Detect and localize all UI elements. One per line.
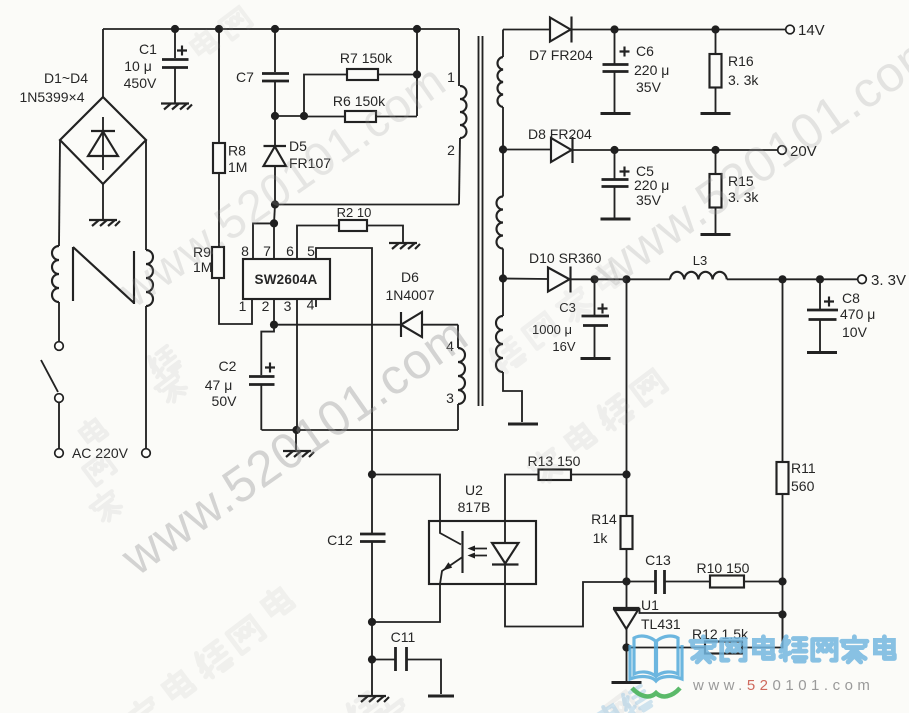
optocoupler U2 817B <box>429 521 536 584</box>
resistor R15 <box>710 150 722 233</box>
node: TL431 cathode node <box>622 577 630 585</box>
resistor R7 <box>347 69 378 80</box>
resistor R6 <box>345 111 376 122</box>
svg-text:450V: 450V <box>124 75 157 91</box>
AC terminal left <box>55 449 64 458</box>
resistor R2 <box>339 220 367 231</box>
svg-text:U1: U1 <box>641 597 659 613</box>
svg-text:1: 1 <box>239 298 247 314</box>
wire: R2 right to ground <box>367 226 403 243</box>
choke core bars <box>73 247 134 304</box>
svg-text:U2: U2 <box>465 482 483 498</box>
node: R10/R11 junction <box>778 577 786 585</box>
svg-text:1N4007: 1N4007 <box>385 287 434 303</box>
svg-text:3: 3 <box>284 298 292 314</box>
wire: LED cathode to TL431 node <box>505 582 627 627</box>
watermark pale blue hanzi bottom <box>596 684 653 713</box>
node: gnd rail at pin3 <box>292 426 300 434</box>
common-mode choke right winding <box>146 250 153 306</box>
svg-text:R14: R14 <box>591 511 617 527</box>
ground under C11 node <box>358 696 389 702</box>
wire: pin8 link <box>253 223 274 259</box>
switch lever <box>41 360 58 392</box>
wire: drain node down to pin7 <box>274 205 275 224</box>
diode D10 SR360 <box>548 267 670 293</box>
wire: pin6 riser to R2 <box>297 226 339 260</box>
svg-text:R10 150: R10 150 <box>697 560 750 576</box>
node: R6/R7 left junction <box>300 112 308 120</box>
resistor R10 <box>710 576 744 588</box>
svg-text:C13: C13 <box>645 552 671 568</box>
capacitor C8 <box>807 279 838 351</box>
svg-text:D7 FR204: D7 FR204 <box>529 47 593 63</box>
resistor R13 <box>505 470 627 522</box>
wire: primary ground rail <box>262 429 459 431</box>
svg-text:1k: 1k <box>593 530 609 546</box>
node: 14V at C6 <box>610 25 618 33</box>
wire: winding3 to gnd rail <box>457 404 459 430</box>
node: 20V at C5 <box>610 146 618 154</box>
node: 20V at R15 <box>711 146 719 154</box>
svg-text:L3: L3 <box>693 253 707 268</box>
svg-text:SW2604A: SW2604A <box>255 272 318 287</box>
transformer core bars <box>479 36 483 406</box>
ground under bridge <box>89 220 120 226</box>
node: R13/R14 junction <box>622 470 630 478</box>
resistor R8 <box>213 143 225 173</box>
node: 3.3V at C3 <box>590 275 598 283</box>
watermark hanzi flecks center <box>526 370 667 486</box>
node: 3.3V at feedback riser <box>622 275 630 283</box>
node: pin2 / source node <box>270 321 278 329</box>
watermark hanzi flecks bottom edge <box>343 691 640 713</box>
capacitor C3 <box>582 279 610 357</box>
svg-text:C12: C12 <box>327 532 353 548</box>
diode D7 FR204 <box>550 17 786 43</box>
svg-text:16V: 16V <box>552 339 575 354</box>
svg-text:560: 560 <box>791 478 815 494</box>
wire: down to C11 node <box>371 622 373 660</box>
switch terminal top <box>55 342 64 351</box>
wire: D6 to feedback winding <box>457 325 459 348</box>
20V rail <box>503 149 551 151</box>
svg-text:C1: C1 <box>139 41 157 57</box>
svg-text:3. 3V: 3. 3V <box>871 272 906 289</box>
watermark gray www upper diagonal <box>109 53 456 318</box>
capacitor C11 <box>372 647 441 694</box>
watermark hanzi flecks top-left <box>189 7 252 58</box>
secondary winding C <box>496 316 503 372</box>
svg-text:D1~D4: D1~D4 <box>44 70 88 86</box>
svg-text:817B: 817B <box>458 499 491 515</box>
svg-text:C2: C2 <box>219 358 237 374</box>
svg-text:2: 2 <box>447 142 455 158</box>
node: 3.3V at C8 <box>816 275 824 283</box>
svg-text:C8: C8 <box>842 290 860 306</box>
wire: bridge bottom to ground <box>102 184 104 219</box>
capacitor C7 <box>262 29 289 116</box>
node: rail at x417 <box>413 25 421 33</box>
wire: opto emitter to gnd net <box>372 584 440 622</box>
svg-text:1M: 1M <box>228 159 247 175</box>
svg-text:2: 2 <box>262 298 270 314</box>
wire: winding bottom to ground <box>503 372 522 422</box>
svg-text:www.520101.com: www.520101.com <box>692 677 874 694</box>
svg-text:50V: 50V <box>212 393 238 409</box>
node: D5 anode / drain node <box>271 200 279 208</box>
resistor R16 <box>710 30 722 113</box>
inductor L3 <box>670 272 727 280</box>
wire: to primary ground <box>371 660 373 696</box>
wire: pin5 lead to feedback riser <box>316 248 372 474</box>
node: 14V at R16 <box>711 25 719 33</box>
logo hanzi text blue <box>691 637 895 662</box>
svg-text:D8 FR204: D8 FR204 <box>528 126 592 142</box>
diode D6 1N4007 <box>401 312 458 337</box>
capacitor C6 <box>603 30 630 113</box>
node: pin7/8 junction <box>270 219 278 227</box>
secondary winding B <box>497 197 503 249</box>
node: rail at C7 <box>271 25 279 33</box>
node: C11 junction <box>368 655 376 663</box>
svg-text:14V: 14V <box>798 22 825 39</box>
transformer feedback winding 4-3 <box>458 348 465 404</box>
node: emitter/C12 junction <box>368 618 376 626</box>
wire: pin4 stub <box>315 299 317 307</box>
common-mode choke left winding <box>52 246 59 302</box>
node: 3.3V at R11 <box>778 275 786 283</box>
wire: source node to D6 <box>274 324 401 326</box>
wire: rail to R7/R6 right <box>416 29 418 116</box>
capacitor C5 <box>602 150 630 218</box>
wire: FB to opto collector <box>372 475 440 522</box>
wire: bridge left arm down to choke <box>59 140 60 246</box>
shunt regulator U1 TL431 <box>613 582 783 648</box>
ground under pin3 <box>283 451 314 457</box>
ground under C1 <box>161 104 192 110</box>
wire: choke right to AC terminal <box>145 306 147 448</box>
svg-text:3. 3k: 3. 3k <box>728 72 759 88</box>
watermark gray www second tile <box>583 19 909 300</box>
wire: pin7 lead <box>273 223 275 259</box>
node: tap D10 <box>499 274 507 282</box>
resistor R14 <box>621 475 633 582</box>
svg-text:10 μ: 10 μ <box>124 58 152 74</box>
wire: C7 junction to R6 junction <box>275 115 304 117</box>
wire: bridge top lead <box>102 29 104 97</box>
svg-text:C6: C6 <box>636 43 654 59</box>
diode D8 FR204 <box>551 137 778 163</box>
watermark hanzi flecks mid-right <box>486 260 624 376</box>
svg-text:D6: D6 <box>401 269 419 285</box>
wire: 3.3V sense riser <box>626 279 628 474</box>
svg-text:R8: R8 <box>228 143 246 159</box>
svg-text:6: 6 <box>286 243 294 259</box>
node: R7 right junction <box>413 70 421 78</box>
svg-text:R16: R16 <box>728 53 754 69</box>
watermark hanzi flecks left edge <box>78 344 190 524</box>
svg-text:C7: C7 <box>236 69 254 85</box>
wire: R6 left lead <box>304 116 345 118</box>
svg-text:10V: 10V <box>842 324 868 340</box>
logo green swoosh <box>632 688 680 696</box>
transformer secondary bus <box>502 30 504 58</box>
watermark gray www main diagonal <box>110 306 478 587</box>
svg-text:35V: 35V <box>636 79 662 95</box>
terminal 3.3V <box>858 275 867 284</box>
wire: pin2 lead <box>273 299 275 325</box>
wire: rail down through R8 R9 <box>218 29 220 143</box>
wire: R6 right lead <box>376 116 417 118</box>
node: tap D8 <box>499 145 507 153</box>
IC U3 SW2604A <box>243 259 330 299</box>
svg-text:220 μ: 220 μ <box>634 177 669 193</box>
svg-text:5: 5 <box>307 243 315 259</box>
transformer primary winding 1-2 <box>458 29 460 86</box>
svg-text:220 μ: 220 μ <box>634 62 669 78</box>
svg-text:470 μ: 470 μ <box>840 306 875 322</box>
14V rail <box>503 29 550 31</box>
svg-text:3: 3 <box>446 390 454 406</box>
wire: bridge right arm down to choke <box>145 140 147 250</box>
svg-text:R7 150k: R7 150k <box>340 50 393 66</box>
capacitor C1 <box>162 29 189 103</box>
node: rail at C1 <box>171 25 179 33</box>
capacitor C2 <box>249 325 275 430</box>
terminal 20V <box>778 146 787 155</box>
terminal 14V <box>786 25 795 34</box>
wire: pin3 node to ground <box>295 430 297 450</box>
svg-text:7: 7 <box>263 243 271 259</box>
wire: R7 right lead <box>378 74 417 76</box>
AC terminal right <box>142 449 151 458</box>
capacitor C13 <box>627 570 711 594</box>
wire: switch to AC terminal <box>58 403 60 448</box>
wire: choke left to switch <box>58 302 60 341</box>
wire: R7 left riser <box>304 75 347 117</box>
svg-text:R11: R11 <box>791 460 816 476</box>
capacitor C12 <box>360 475 386 623</box>
ground under R2 <box>389 243 420 249</box>
svg-text:R2 10: R2 10 <box>337 205 372 220</box>
svg-text:4: 4 <box>307 297 315 313</box>
svg-text:8: 8 <box>241 243 249 259</box>
node: ref/R12 junction <box>778 610 786 618</box>
diode D5 FR107 <box>264 116 287 204</box>
wire: R9 to IC pin1 <box>219 278 252 324</box>
svg-text:47 μ: 47 μ <box>205 377 233 393</box>
node: FB node <box>368 470 376 478</box>
switch terminal bottom <box>55 394 64 403</box>
resistor R11 <box>777 279 789 647</box>
svg-text:TL431: TL431 <box>641 616 681 632</box>
svg-text:1: 1 <box>447 69 455 85</box>
secondary winding A <box>497 57 503 107</box>
ground under secondary winding <box>508 423 538 425</box>
wire: anode to ground <box>626 648 628 682</box>
bridge rectifier D1~D4 <box>60 97 146 184</box>
watermark hanzi diagonal bottom-left <box>123 585 294 713</box>
resistor R9 <box>212 247 224 278</box>
wire: drain node to transformer pin2 <box>275 204 459 206</box>
node: TL431 anode node <box>622 643 630 651</box>
wire: top HV rail <box>103 28 459 30</box>
svg-text:1N5399×4: 1N5399×4 <box>19 89 84 105</box>
svg-text:C11: C11 <box>391 629 416 645</box>
logo book icon <box>630 636 682 681</box>
node: C7 bottom junction <box>271 112 279 120</box>
node: rail at R8 <box>215 25 223 33</box>
wire: pin3 lead down to gnd rail <box>296 299 298 430</box>
3.3V rail <box>503 278 548 281</box>
resistor R12 <box>627 615 783 654</box>
